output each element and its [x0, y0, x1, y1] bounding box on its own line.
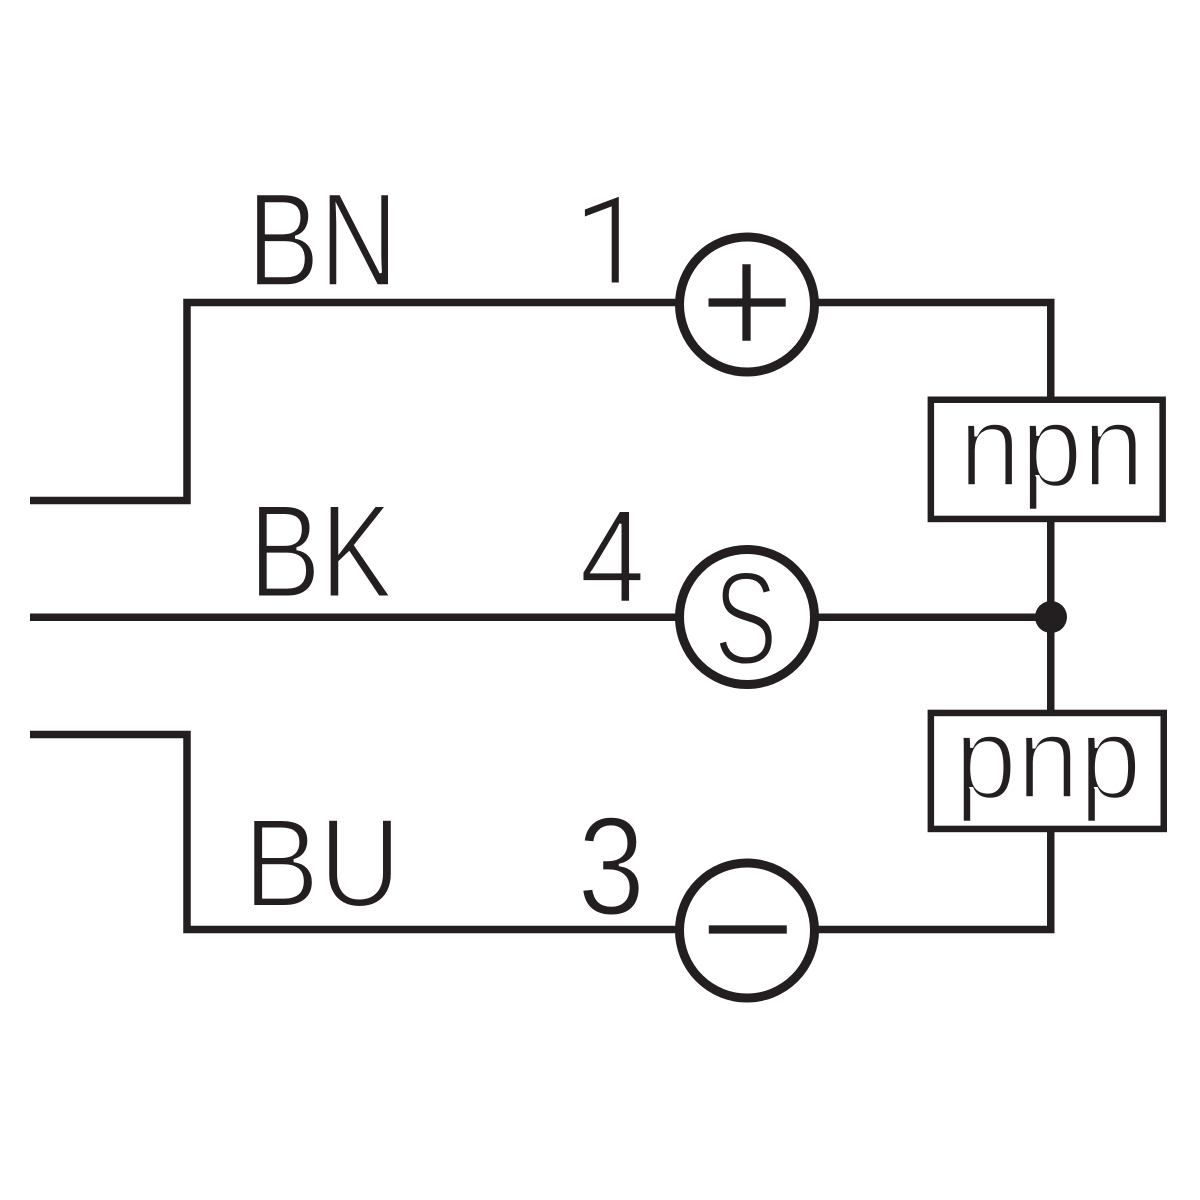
svg-text:BK: BK	[249, 478, 392, 626]
svg-text:3: 3	[578, 787, 646, 944]
svg-text:pnp: pnp	[955, 692, 1142, 823]
svg-text:BU: BU	[244, 793, 401, 934]
svg-text:BN: BN	[247, 166, 398, 315]
svg-text:S: S	[714, 545, 777, 693]
svg-text:4: 4	[580, 483, 645, 631]
svg-text:npn: npn	[959, 380, 1144, 511]
